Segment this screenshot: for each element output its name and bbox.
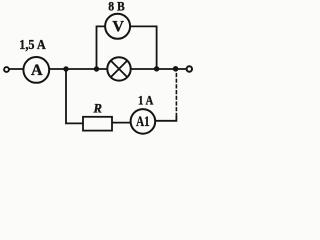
svg-text:A1: A1 [136, 114, 150, 130]
svg-text:1 A: 1 A [138, 92, 154, 107]
svg-text:8 В: 8 В [108, 0, 125, 13]
svg-text:V: V [112, 19, 124, 36]
svg-text:1,5 A: 1,5 A [19, 37, 46, 52]
svg-text:A: A [31, 62, 43, 79]
svg-text:R: R [92, 101, 101, 115]
